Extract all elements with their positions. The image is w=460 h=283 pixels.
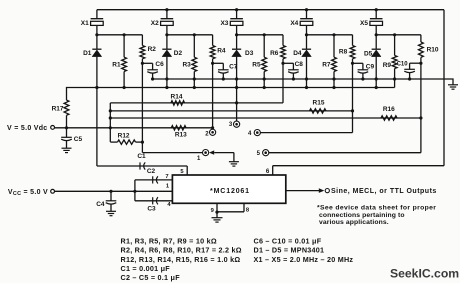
svg-text:R14: R14 (171, 94, 183, 101)
svg-text:R9: R9 (383, 62, 392, 69)
svg-text:Sine, MECL, or TTL Outputs: Sine, MECL, or TTL Outputs (331, 188, 437, 195)
svg-text:R10: R10 (427, 47, 439, 54)
svg-text:R1: R1 (112, 61, 121, 68)
svg-text:R16: R16 (383, 106, 395, 113)
svg-text:R17: R17 (52, 105, 64, 112)
svg-text:D4: D4 (293, 50, 302, 57)
svg-text:C10: C10 (397, 61, 409, 67)
svg-text:C4: C4 (96, 201, 105, 208)
svg-text:C1 = 0.001 μF: C1 = 0.001 μF (121, 264, 171, 273)
svg-text:C8: C8 (295, 61, 304, 68)
svg-text:R7: R7 (322, 61, 331, 68)
svg-text:R4: R4 (217, 48, 226, 55)
svg-text:X2: X2 (151, 20, 159, 27)
svg-text:R13: R13 (175, 131, 187, 138)
svg-text:V = 5.0 Vdc: V = 5.0 Vdc (7, 125, 47, 132)
svg-text:D3: D3 (245, 50, 254, 57)
svg-text:D1 – D5 = MPN3401: D1 – D5 = MPN3401 (254, 246, 325, 255)
svg-text:VCC = 5.0 V: VCC = 5.0 V (8, 189, 48, 197)
svg-text:*MC12061: *MC12061 (210, 188, 250, 195)
svg-text:connections pertaining to: connections pertaining to (319, 212, 405, 219)
svg-text:D5: D5 (364, 51, 373, 58)
svg-text:R12: R12 (118, 132, 130, 139)
svg-text:R2: R2 (148, 46, 157, 53)
svg-text:6: 6 (266, 168, 270, 175)
svg-text:C3: C3 (147, 206, 156, 213)
svg-text:C5: C5 (74, 136, 83, 143)
svg-text:D2: D2 (174, 50, 183, 57)
svg-text:C9: C9 (366, 63, 375, 70)
svg-text:R8: R8 (339, 49, 348, 56)
svg-text:D1: D1 (83, 50, 92, 57)
svg-text:7: 7 (165, 174, 168, 180)
svg-text:R15: R15 (313, 100, 325, 107)
svg-text:X3: X3 (220, 20, 228, 27)
svg-text:C7: C7 (229, 63, 238, 70)
svg-text:X1 – X5 = 2.0 MHz – 20 MHz: X1 – X5 = 2.0 MHz – 20 MHz (254, 255, 354, 264)
svg-text:X4: X4 (290, 20, 298, 27)
svg-text:R12, R13, R14, R15, R16 = 1.0: R12, R13, R14, R15, R16 = 1.0 kΩ (121, 255, 241, 264)
svg-text:C6: C6 (155, 61, 164, 68)
svg-text:C1: C1 (137, 153, 146, 160)
svg-text:X1: X1 (81, 20, 89, 27)
svg-text:R6: R6 (270, 50, 279, 57)
svg-text:R5: R5 (252, 62, 261, 69)
svg-text:C2: C2 (147, 168, 156, 175)
svg-text:SeekIC.com: SeekIC.com (390, 267, 459, 281)
svg-text:X5: X5 (360, 20, 368, 27)
svg-text:R3: R3 (182, 62, 191, 69)
svg-text:C6 – C10 = 0.01 μF: C6 – C10 = 0.01 μF (254, 237, 322, 246)
svg-text:R1, R3, R5, R7, R9 = 10 kΩ: R1, R3, R5, R7, R9 = 10 kΩ (121, 237, 217, 246)
svg-text:*See device data sheet for pro: *See device data sheet for proper (317, 205, 436, 212)
svg-text:R2, R4, R6, R8, R10, R17 = 2.2: R2, R4, R6, R8, R10, R17 = 2.2 kΩ (121, 246, 242, 255)
svg-text:C2 – C5 = 0.1 μF: C2 – C5 = 0.1 μF (121, 273, 181, 282)
svg-text:various applications.: various applications. (319, 219, 389, 226)
